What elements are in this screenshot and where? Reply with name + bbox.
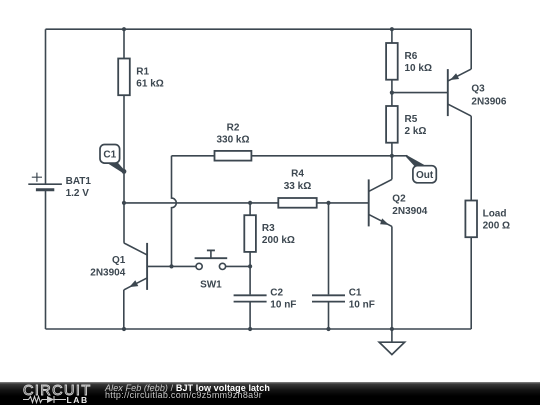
resistor R2 bbox=[215, 123, 252, 161]
wire C1 top lead bbox=[328, 203, 330, 295]
capacitor C1 bbox=[312, 288, 375, 311]
svg-text:1.2 V: 1.2 V bbox=[66, 188, 90, 199]
wire left rail lower bbox=[45, 190, 47, 329]
svg-text:BAT1: BAT1 bbox=[66, 176, 92, 187]
svg-text:2N3904: 2N3904 bbox=[90, 267, 125, 278]
transistor Q3 2N3906 bbox=[448, 69, 507, 116]
junction R3 top bbox=[248, 201, 252, 205]
svg-text:R1: R1 bbox=[136, 67, 149, 78]
wire R4 right lead bbox=[317, 202, 369, 204]
resistor R3 bbox=[244, 215, 295, 252]
svg-text:330 kΩ: 330 kΩ bbox=[216, 135, 249, 146]
wire left rail bbox=[45, 29, 47, 184]
svg-text:Load: Load bbox=[483, 209, 507, 220]
resistor R6 bbox=[386, 43, 432, 80]
junction C1 bottom bbox=[326, 327, 330, 331]
svg-text:R2: R2 bbox=[227, 123, 240, 134]
wire R2 left lead bbox=[172, 155, 215, 157]
wire ground stub bbox=[391, 329, 393, 342]
svg-text:2N3904: 2N3904 bbox=[392, 206, 427, 217]
svg-text:Q3: Q3 bbox=[471, 83, 485, 94]
node Out flag bbox=[406, 155, 436, 183]
svg-text:10 kΩ: 10 kΩ bbox=[405, 63, 432, 74]
resistor R4 bbox=[278, 169, 316, 208]
wire right rail top (Q3 emitter to top bus) bbox=[470, 29, 472, 69]
wire SW1 left lead bbox=[172, 265, 196, 267]
wire Q2 collector vertical bbox=[391, 156, 393, 180]
junction ground node bbox=[390, 327, 394, 331]
wire Q1 base bbox=[147, 265, 171, 267]
footer bar bbox=[0, 382, 540, 405]
svg-text:61 kΩ: 61 kΩ bbox=[136, 79, 163, 90]
junction SW1 right / R3 bottom bbox=[248, 264, 252, 268]
svg-text:10 nF: 10 nF bbox=[270, 300, 296, 311]
svg-text:200 kΩ: 200 kΩ bbox=[262, 235, 295, 246]
capacitor C2 bbox=[234, 288, 297, 311]
junction Out node bbox=[390, 154, 394, 158]
junction R1 top bbox=[122, 27, 126, 31]
junction Q1 emitter bottom bbox=[122, 327, 126, 331]
junction Q3 base node bbox=[390, 91, 394, 95]
wire bottom bus bbox=[46, 328, 472, 330]
wire C2 top lead bbox=[249, 266, 251, 294]
svg-text:C1: C1 bbox=[103, 150, 116, 161]
wire R2-left vertical with hop over mid bus bbox=[172, 156, 177, 267]
wire R2 right lead bbox=[251, 155, 392, 157]
svg-text:2N3906: 2N3906 bbox=[471, 97, 506, 108]
wire R3 bottom lead bbox=[249, 252, 251, 267]
svg-text:C1: C1 bbox=[349, 288, 362, 299]
resistor R5 bbox=[386, 106, 426, 143]
resistor Load bbox=[465, 201, 510, 238]
svg-text:2 kΩ: 2 kΩ bbox=[405, 126, 427, 137]
svg-text:C2: C2 bbox=[270, 288, 283, 299]
svg-text:Out: Out bbox=[416, 170, 434, 181]
svg-text:R3: R3 bbox=[262, 223, 275, 234]
wire C1 bottom lead bbox=[328, 303, 330, 330]
battery BAT1 bbox=[28, 173, 91, 199]
wire Load to bottom bus bbox=[470, 237, 472, 329]
svg-text:SW1: SW1 bbox=[200, 280, 222, 291]
wire Q3 collector to Load bbox=[470, 116, 472, 200]
wire mid bus bbox=[124, 202, 278, 204]
svg-text:R4: R4 bbox=[291, 169, 304, 180]
wire Out flag stub bbox=[392, 155, 408, 157]
svg-text:Q1: Q1 bbox=[112, 255, 126, 266]
wire R3 top lead bbox=[249, 203, 251, 215]
switch SW1 bbox=[195, 250, 228, 290]
transistor Q2 2N3904 bbox=[369, 179, 428, 226]
wire C2 bottom lead bbox=[249, 303, 251, 330]
wire R6 bottom lead bbox=[391, 80, 393, 106]
svg-text:10 nF: 10 nF bbox=[349, 300, 375, 311]
resistor R1 bbox=[118, 59, 164, 96]
transistor Q1 2N3904 bbox=[90, 243, 147, 290]
wire Q2 emitter vertical bbox=[391, 226, 393, 329]
svg-text:Q2: Q2 bbox=[392, 194, 406, 205]
svg-text:R6: R6 bbox=[405, 51, 418, 62]
junction Q1 base bbox=[169, 264, 173, 268]
ground bbox=[379, 342, 404, 354]
svg-text:200 Ω: 200 Ω bbox=[483, 221, 510, 232]
junction R4 right / C1 top bbox=[326, 201, 330, 205]
wire R6 top lead bbox=[391, 29, 393, 43]
wire SW1 right lead bbox=[226, 265, 250, 267]
wire R1 top lead bbox=[123, 29, 125, 58]
wire Q1 emitter vertical bbox=[123, 290, 125, 329]
CircuitLab logo bbox=[23, 383, 92, 399]
wire R1 bottom lead / node C1 vertical bbox=[123, 95, 125, 243]
junction mid bus left bbox=[122, 201, 126, 205]
wire R5 bottom lead bbox=[391, 143, 393, 156]
svg-text:R5: R5 bbox=[405, 114, 418, 125]
junction C2 bottom bbox=[248, 327, 252, 331]
svg-text:33 kΩ: 33 kΩ bbox=[284, 181, 311, 192]
wire Q3 base bbox=[392, 92, 448, 94]
junction R6 top bbox=[390, 27, 394, 31]
wire top bus bbox=[46, 28, 472, 30]
node C1 flag bbox=[100, 145, 126, 174]
